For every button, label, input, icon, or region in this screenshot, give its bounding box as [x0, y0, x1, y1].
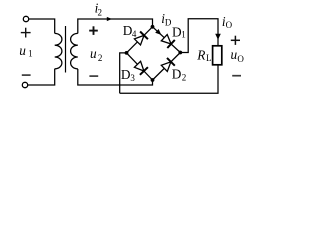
label uO — [231, 47, 245, 64]
svg-text:3: 3 — [130, 73, 135, 83]
node bottom corner of bridge — [151, 78, 155, 82]
wire secondary bottom to bridge bottom corner — [78, 69, 153, 85]
svg-text:D: D — [165, 17, 172, 27]
svg-text:2: 2 — [98, 7, 103, 17]
polarity minus u2 — [89, 75, 98, 77]
svg-text:O: O — [226, 20, 233, 30]
svg-text:R: R — [196, 48, 205, 63]
svg-text:1: 1 — [28, 49, 32, 59]
diode D4 — [134, 32, 148, 46]
label D4 — [123, 23, 137, 39]
polarity minus u1 — [22, 74, 31, 76]
svg-text:D: D — [172, 67, 182, 82]
svg-text:1: 1 — [181, 29, 186, 39]
node right corner of bridge — [178, 51, 182, 55]
svg-text:4: 4 — [132, 29, 137, 39]
wire secondary top to bridge top corner — [78, 19, 153, 33]
label D1 — [172, 24, 186, 39]
wire bridge edge left-bottom (D3 branch) — [127, 53, 153, 80]
label u2 — [90, 46, 102, 63]
svg-text:2: 2 — [98, 53, 103, 63]
label iO — [222, 14, 233, 30]
label D3 — [121, 67, 135, 83]
resistor RL — [213, 46, 222, 65]
wire top-left terminal to primary top — [29, 19, 55, 33]
svg-text:O: O — [237, 54, 244, 64]
polarity minus uO — [232, 75, 241, 77]
svg-text:2: 2 — [182, 72, 187, 82]
polarity plus u2 — [89, 26, 98, 35]
wire bridge edge left-top (D4 branch) — [127, 27, 153, 53]
terminal bottom-left — [22, 82, 27, 87]
svg-text:u: u — [19, 43, 26, 58]
transformer core — [65, 26, 67, 73]
wire bottom rail to RL bottom — [120, 65, 218, 93]
wire primary bottom to bottom-left terminal — [28, 69, 55, 85]
transformer primary winding — [55, 33, 62, 68]
wire left corner down to bottom rail — [120, 53, 127, 93]
svg-text:D: D — [121, 67, 131, 82]
current arrow iD on D1 branch — [155, 29, 161, 35]
label RL — [196, 48, 211, 64]
svg-text:L: L — [206, 53, 212, 63]
current arrow iO — [215, 34, 221, 40]
wire right corner up and over to RL top — [180, 19, 218, 53]
full-wave bridge rectifier circuit schematic — [0, 0, 257, 105]
wire bridge edge top-right (D1 branch) — [153, 27, 181, 53]
current arrow i2 — [107, 17, 112, 21]
wire bridge edge bottom-right (D2 branch) — [153, 53, 181, 81]
transformer secondary winding — [71, 33, 78, 68]
label iD — [161, 11, 172, 27]
node top corner of bridge — [151, 25, 155, 29]
label i2 — [95, 1, 102, 18]
node left corner of bridge — [125, 51, 129, 55]
label u1 — [19, 43, 32, 59]
terminal top-left — [23, 16, 28, 21]
polarity plus uO — [231, 36, 240, 45]
label D2 — [172, 67, 187, 83]
polarity plus u1 — [21, 28, 31, 38]
diode D2 — [161, 58, 175, 72]
diode D1 — [161, 35, 175, 49]
svg-text:u: u — [90, 46, 97, 61]
diode D3 — [134, 61, 148, 75]
